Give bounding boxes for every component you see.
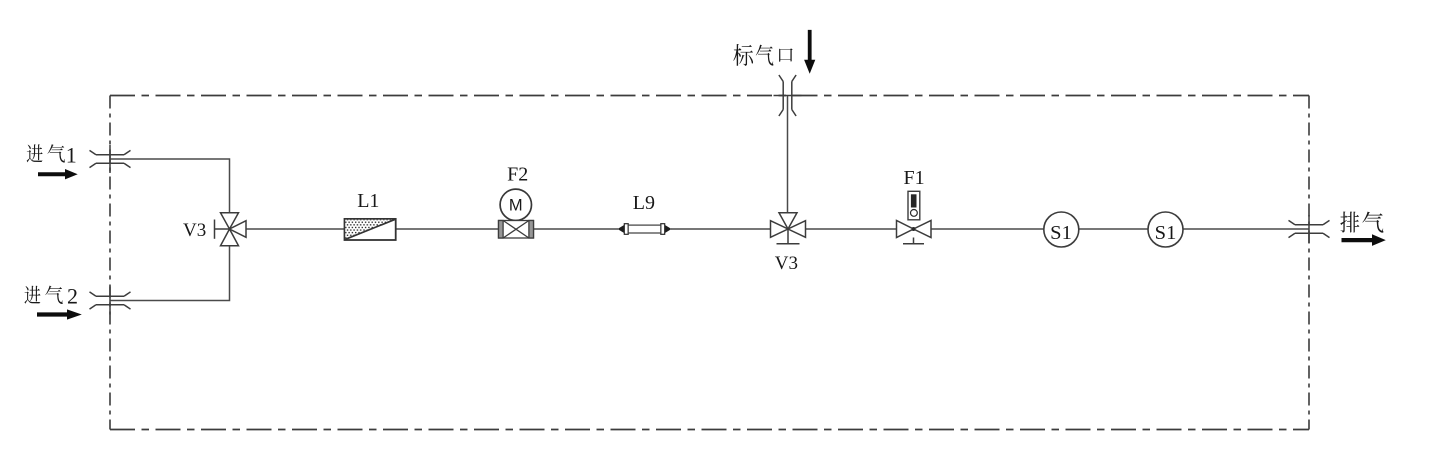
flow arrow standard-gas (down)	[804, 30, 815, 74]
bulkhead port inlet-1	[90, 145, 131, 173]
svg-text:F1: F1	[904, 167, 925, 189]
wire: standard-gas vertical pipe to valve V3b	[787, 96, 789, 214]
flow arrow inlet-1	[38, 169, 78, 179]
flow arrow exhaust	[1342, 234, 1386, 246]
sensor S1b	[1148, 212, 1183, 247]
needle valve F1 center dot	[912, 227, 916, 231]
svg-text:L1: L1	[357, 190, 379, 212]
flow indicator on F1	[908, 191, 920, 220]
wire: main pipe S1a to sensor S1b	[1079, 228, 1148, 230]
svg-text:V3: V3	[775, 253, 798, 274]
needle valve F1 bowtie	[897, 221, 932, 244]
wire: main pipe V3a to filter L1	[246, 228, 345, 230]
svg-text:2: 2	[67, 284, 78, 309]
label standard-gas port (Chinese)	[733, 44, 792, 66]
svg-text:S1: S1	[1050, 222, 1072, 244]
filter L1	[345, 219, 396, 240]
wire: main pipe S1b to exhaust port	[1183, 228, 1309, 230]
pump F2 body	[499, 221, 534, 239]
svg-text:V3: V3	[183, 220, 206, 241]
svg-text:L9: L9	[633, 192, 655, 214]
enclosure dash-dot boundary left	[109, 96, 111, 430]
enclosure dash-dot boundary bottom	[110, 429, 1309, 431]
bulkhead port exhaust	[1289, 215, 1330, 243]
wire: main pipe F1 to sensor S1a	[931, 228, 1044, 230]
wire: inlet-2 pipe from port to valve V3a	[110, 246, 230, 301]
three-way valve V3b	[771, 213, 806, 244]
wire: main pipe L1 to pump F2	[396, 228, 499, 230]
label inlet-2 (Chinese)	[24, 286, 62, 304]
bulkhead port standard-gas (vertical)	[774, 75, 802, 116]
label inlet-1 (Chinese)	[27, 144, 65, 162]
label exhaust (Chinese)	[1340, 211, 1383, 232]
svg-text:S1: S1	[1155, 222, 1177, 244]
svg-text:F2: F2	[507, 163, 528, 185]
wire: main pipe F2 to L9	[534, 228, 619, 230]
inline tube L9	[618, 224, 672, 235]
three-way valve V3a	[215, 213, 247, 246]
wire: main pipe V3b to valve F1	[806, 228, 897, 230]
enclosure dash-dot boundary right	[1308, 96, 1310, 430]
flow arrow inlet-2	[37, 309, 82, 319]
svg-text:M: M	[509, 197, 523, 215]
svg-text:1: 1	[66, 143, 77, 168]
wire: main pipe L9 to valve V3b	[671, 228, 771, 230]
sensor S1a	[1044, 212, 1079, 247]
pump F2 motor circle	[500, 189, 531, 220]
enclosure dash-dot boundary top	[110, 95, 1309, 97]
wire: inlet-1 pipe from port to valve V3a	[110, 159, 230, 213]
bulkhead port inlet-2	[90, 287, 131, 315]
